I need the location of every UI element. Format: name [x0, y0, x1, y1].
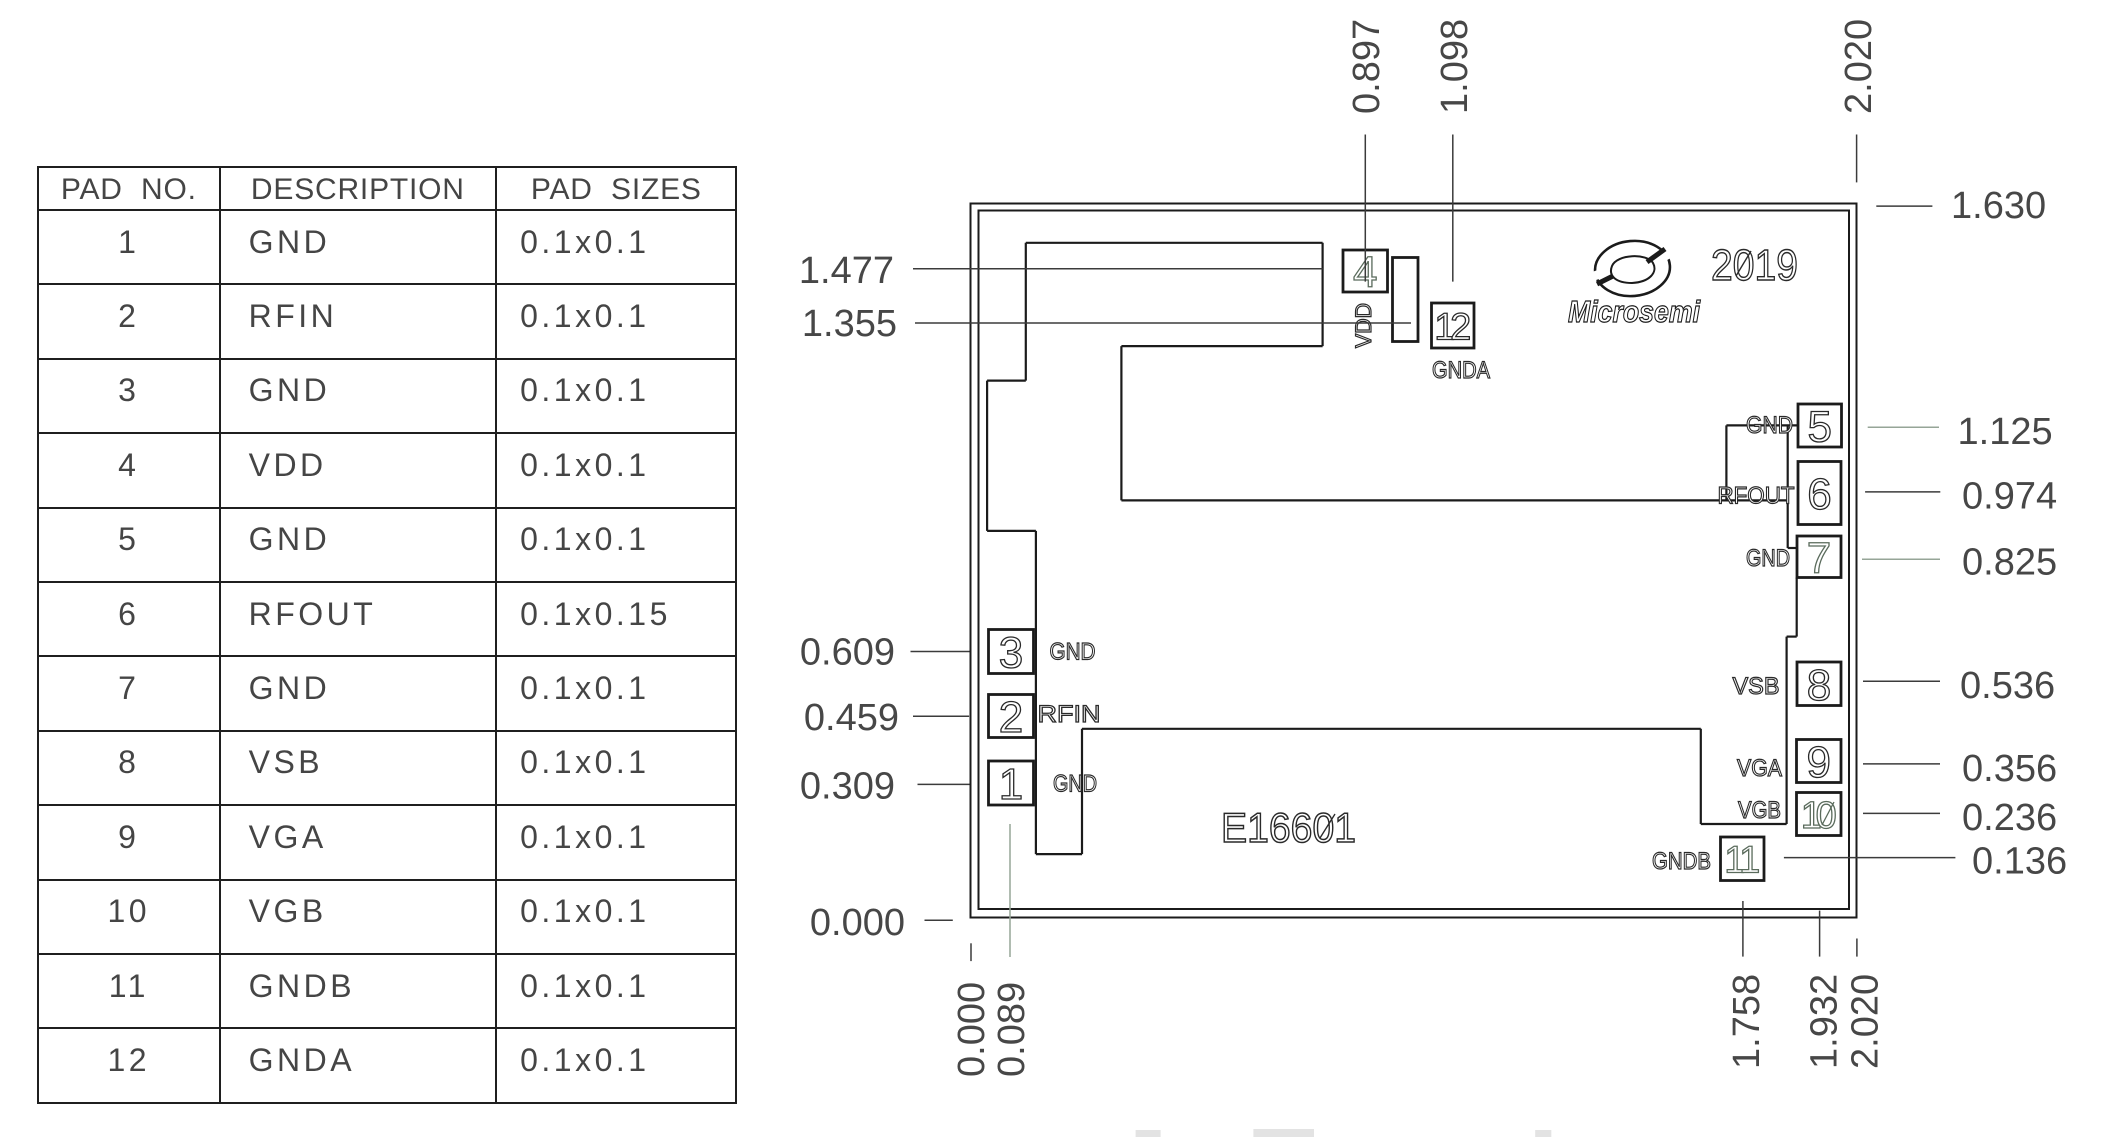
part number E16601 [1221, 241, 1798, 851]
pad 5 [1798, 404, 1842, 447]
svg-text:GND: GND [1050, 639, 1096, 666]
svg-text:2.020: 2.020 [1845, 974, 1887, 1069]
cropped artifact rect 3 [1535, 1130, 1551, 1137]
pad 8 [1797, 662, 1841, 706]
wire vertical from VDD bus down [1120, 346, 1122, 500]
svg-text:GND: GND [1053, 771, 1097, 798]
dimension leader 1.125 [1868, 426, 1939, 428]
svg-text:9: 9 [1807, 738, 1831, 787]
pad 9 [1797, 740, 1842, 783]
svg-text:RFIN: RFIN [1038, 701, 1101, 728]
wire VDD bus bottom edge [1121, 345, 1322, 347]
wire vertical along pads 1-3 [1035, 531, 1037, 854]
svg-text:0.974: 0.974 [1962, 476, 2057, 518]
svg-text:0.136: 0.136 [1972, 841, 2067, 883]
svg-text:VGB: VGB [1738, 797, 1781, 824]
svg-text:1.932: 1.932 [1804, 974, 1846, 1069]
svg-text:0.000: 0.000 [951, 982, 993, 1077]
slash of zero in E16601 [1320, 814, 1335, 838]
svg-text:1.630: 1.630 [1951, 185, 2046, 227]
dimension leader 1.477 [913, 268, 1323, 270]
wire RFOUT trace horizontal [1121, 499, 1787, 501]
Microsemi logo icon [1588, 238, 1678, 299]
svg-text:1.098: 1.098 [1434, 19, 1476, 114]
svg-text:1.477: 1.477 [799, 250, 894, 292]
die outline inner border [979, 211, 1850, 910]
wire RFIN trace left edge [1081, 729, 1083, 854]
svg-text:0.089: 0.089 [991, 982, 1033, 1077]
dimension tick 2.020 top [1856, 135, 1858, 183]
wire jog to pad 7 [1787, 635, 1797, 637]
svg-text:6: 6 [1807, 470, 1831, 519]
svg-text:7: 7 [1807, 534, 1831, 583]
dimension leader 1.630 [1876, 205, 1932, 207]
wire RFIN trace right down [1700, 729, 1702, 824]
pad 10 [1797, 793, 1842, 836]
svg-text:E16601: E16601 [1221, 804, 1356, 851]
svg-text:11: 11 [1724, 840, 1760, 882]
svg-text:VGA: VGA [1737, 755, 1782, 782]
svg-text:8: 8 [1807, 661, 1831, 710]
svg-text:GNDB: GNDB [1652, 848, 1711, 875]
dimension leader 0.609 [911, 651, 970, 653]
pad 12 [1432, 303, 1475, 348]
svg-text:0.459: 0.459 [804, 697, 899, 739]
wire jog left [987, 380, 1026, 382]
wire VDD bus right edge [1321, 243, 1323, 346]
svg-text:12: 12 [1434, 306, 1471, 348]
svg-text:GNDA: GNDA [1432, 357, 1490, 384]
wire bottom right horizontal [1701, 823, 1787, 825]
dimension leader 0.825 [1862, 558, 1940, 560]
dimension leader 0.309 [918, 783, 970, 785]
svg-text:0.000: 0.000 [810, 902, 905, 944]
svg-text:GND: GND [1746, 412, 1793, 439]
pad 11 [1721, 837, 1765, 881]
svg-text:1.758: 1.758 [1726, 974, 1768, 1069]
wire jog right [987, 530, 1036, 532]
pad 7 [1797, 536, 1841, 578]
pad 3 [989, 630, 1034, 674]
wire bottom jog [1036, 853, 1082, 855]
slash of zero in 2019 [1736, 251, 1751, 276]
pad 1 [989, 761, 1034, 805]
dimension line 0.089 [1009, 824, 1011, 957]
svg-text:0.536: 0.536 [1960, 665, 2055, 707]
dimension leader 1.355 [915, 322, 1411, 324]
dimension leader 0.459 [913, 715, 969, 717]
dimension leader 0.136 [1784, 857, 1956, 859]
dimension tick 0.000 left [925, 919, 953, 921]
svg-text:0.356: 0.356 [1962, 748, 2057, 790]
wire vertical pad5 to RFOUT [1787, 425, 1789, 548]
dimension tick 0.000 bottom [970, 943, 972, 961]
svg-text:2.020: 2.020 [1838, 19, 1880, 114]
dimension tick 2.020 bottom [1856, 939, 1858, 957]
dimension line 1.098 [1452, 135, 1454, 282]
slash of zero in pad 10 label [1822, 802, 1834, 825]
svg-text:VDD: VDD [1351, 303, 1376, 348]
svg-text:2019: 2019 [1711, 241, 1798, 290]
pad 4 [1343, 250, 1388, 292]
pad 6 [1798, 462, 1841, 525]
svg-text:Microsemi: Microsemi [1568, 294, 1701, 329]
wire vertical along pads 8-10 [1785, 637, 1787, 824]
dimension leader 0.236 [1863, 812, 1940, 814]
svg-text:RFOUT: RFOUT [1718, 483, 1795, 510]
svg-text:0.609: 0.609 [800, 632, 895, 674]
svg-text:0.897: 0.897 [1346, 19, 1388, 114]
dimension line 0.897 [1364, 135, 1366, 282]
svg-text:GND: GND [1746, 545, 1790, 572]
wire VDD bus top edge [1026, 242, 1323, 244]
wire RFIN trace horizontal [1082, 728, 1701, 730]
wire pad 7 stub [1796, 578, 1798, 637]
wire stub to pad 7 left [1788, 547, 1797, 549]
svg-text:1.355: 1.355 [802, 303, 897, 345]
svg-text:2: 2 [999, 693, 1023, 742]
svg-text:3: 3 [999, 629, 1023, 678]
wire VDD bus left edge down [1025, 243, 1027, 381]
svg-text:1: 1 [999, 760, 1023, 809]
svg-text:5: 5 [1808, 403, 1832, 452]
dimension leader 0.356 [1863, 763, 1940, 765]
svg-text:VSB: VSB [1733, 673, 1780, 700]
pad table [37, 166, 737, 1104]
svg-text:0.825: 0.825 [1962, 542, 2057, 584]
dimension line 1.758 [1742, 901, 1744, 957]
unnumbered tall pad near pad 4 [1393, 258, 1419, 342]
wire vertical down to RFOUT trace [1725, 425, 1727, 500]
die outline outer border [971, 204, 1857, 918]
svg-text:0.309: 0.309 [800, 766, 895, 808]
cropped artifact rect 2 [1253, 1129, 1314, 1137]
wire left vertical [986, 381, 988, 531]
pad 2 [989, 695, 1034, 738]
svg-text:10: 10 [1801, 795, 1837, 837]
dimension leader 0.974 [1865, 491, 1940, 493]
cropped artifact rect 1 [1136, 1130, 1161, 1137]
svg-text:0.236: 0.236 [1962, 797, 2057, 839]
dimension line 1.932 [1819, 911, 1821, 957]
svg-text:1.125: 1.125 [1958, 411, 2053, 453]
dimension leader 0.536 [1863, 680, 1940, 682]
wire pad 5 horizontal [1726, 424, 1798, 426]
